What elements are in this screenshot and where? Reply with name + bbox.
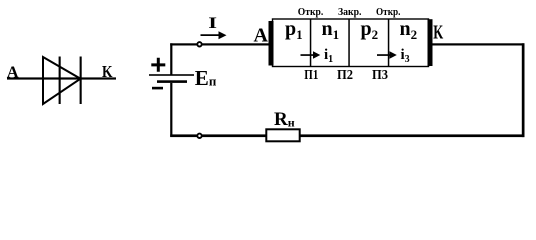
battery Eп positive plate bbox=[149, 74, 194, 76]
svg-text:K: K bbox=[102, 62, 113, 81]
anode electrode bar bbox=[269, 21, 274, 66]
junction П2 divider bbox=[348, 19, 350, 67]
wire: bottom rail left segment bbox=[170, 134, 266, 137]
battery Eп negative plate bbox=[157, 80, 187, 83]
junction П3 divider bbox=[388, 19, 390, 67]
dinistor middle bar bbox=[59, 57, 61, 105]
svg-text:Откр.: Откр. bbox=[376, 6, 401, 18]
svg-text:A: A bbox=[254, 25, 269, 47]
junction П1 divider bbox=[310, 19, 312, 67]
wire: right vertical bbox=[522, 43, 525, 137]
node circle (top) bbox=[197, 42, 201, 46]
resistor Rн bbox=[266, 129, 299, 141]
svg-text:П2: П2 bbox=[337, 68, 353, 83]
svg-text:Закр.: Закр. bbox=[338, 6, 362, 18]
minus sign bbox=[152, 87, 163, 90]
wire: top rail right segment bbox=[433, 43, 525, 45]
svg-text:K: K bbox=[433, 22, 443, 44]
label I bbox=[208, 15, 217, 32]
current arrow I bbox=[201, 34, 221, 36]
svg-text:П3: П3 bbox=[372, 68, 388, 83]
wire: battery negative to bottom rail bbox=[170, 83, 172, 137]
dinistor triangle bbox=[43, 57, 81, 104]
dinistor cathode bar bbox=[80, 57, 82, 105]
current arrow i3 bbox=[377, 54, 392, 56]
four-layer structure box bbox=[273, 19, 429, 67]
svg-text:Откр.: Откр. bbox=[298, 6, 324, 18]
current arrow i1 bbox=[301, 54, 316, 56]
svg-text:I: I bbox=[208, 15, 217, 32]
wire: dinistor axis A-K bbox=[7, 77, 116, 79]
cathode electrode bar bbox=[428, 19, 433, 66]
svg-text:П1: П1 bbox=[304, 68, 318, 83]
wire: battery positive to top rail bbox=[170, 43, 172, 75]
node circle (bottom) bbox=[197, 134, 201, 138]
plus sign bbox=[151, 58, 165, 72]
wire: top rail left segment bbox=[170, 43, 269, 45]
wire: bottom rail right segment bbox=[301, 134, 525, 137]
